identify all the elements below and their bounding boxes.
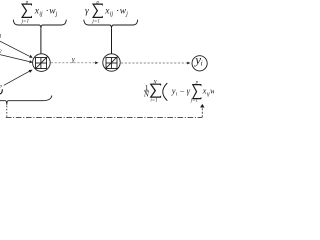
wire: vertical line from B2 tip to neuron N2 — [111, 28, 113, 54]
svg-text:w: w — [210, 86, 214, 96]
cropped brace end curl at left edge — [0, 89, 2, 94]
svg-text:p: p — [25, 0, 29, 5]
svg-text:j=1: j=1 — [190, 99, 198, 104]
dotted vertical connector right — [201, 108, 203, 117]
output node y_i — [192, 56, 207, 71]
error formula: 1/N sum_{i=1}^N ( y_i - gamma sum_{j=1}^p x_ij w_j — [143, 80, 216, 103]
dotted vertical connector left — [6, 106, 8, 117]
wire: vertical line from B1 tip to neuron N1 — [40, 28, 42, 54]
sigma S2 — [92, 4, 103, 19]
arrowhead input 3 — [29, 70, 33, 73]
svg-text:1: 1 — [0, 33, 2, 39]
big left paren — [163, 83, 168, 101]
svg-text:·: · — [116, 6, 119, 16]
sigma SE2 — [192, 84, 202, 99]
svg-text:−: − — [180, 87, 185, 97]
neuron N1: circle with linear activation icon — [33, 54, 51, 72]
sigma S1 — [21, 4, 32, 19]
wire: input line 1 — [0, 41, 30, 56]
arrowhead to output — [187, 62, 190, 65]
svg-text:p: p — [95, 0, 99, 5]
svg-text:ij: ij — [39, 10, 43, 17]
svg-text:·: · — [46, 6, 49, 16]
svg-text:γ: γ — [85, 6, 89, 16]
svg-text:i: i — [201, 59, 203, 68]
dash-dot feedback line bottom — [6, 117, 203, 119]
svg-text:N: N — [143, 90, 150, 99]
formula F2: gamma sum_{j=1}^{p} x_ij . w_j — [85, 0, 128, 24]
dashed arrow N1 to N2 — [51, 62, 95, 64]
bottom-left partial underbrace (cropped figure) — [0, 96, 52, 105]
formula F1: sum_{j=1}^{p} x_ij . w_j — [21, 0, 58, 24]
svg-text:j: j — [125, 10, 128, 17]
svg-text:j=1: j=1 — [21, 18, 30, 24]
arrowhead to N2 — [95, 61, 98, 64]
dashed arrow N2 to output — [121, 62, 187, 64]
wire: input line 3 — [4, 71, 30, 85]
neuron N2: circle with linear activation icon — [103, 54, 120, 71]
svg-text:p: p — [195, 80, 199, 85]
svg-text:γ: γ — [72, 57, 75, 64]
arrowhead input 2 — [29, 60, 32, 63]
svg-text:j: j — [55, 10, 58, 17]
svg-text:i=1: i=1 — [150, 99, 157, 104]
underbrace B2 — [84, 20, 138, 29]
sigma SE1 — [150, 84, 162, 98]
svg-text:j=1: j=1 — [91, 18, 100, 24]
wire: input line 2 — [0, 55, 29, 62]
underbrace B1 — [13, 20, 66, 29]
arrowhead up into error formula — [200, 104, 204, 108]
svg-text:ij: ij — [110, 10, 114, 17]
svg-text:p: p — [0, 83, 2, 89]
svg-text:2: 2 — [0, 49, 2, 55]
arrowhead input 1 — [29, 55, 33, 58]
